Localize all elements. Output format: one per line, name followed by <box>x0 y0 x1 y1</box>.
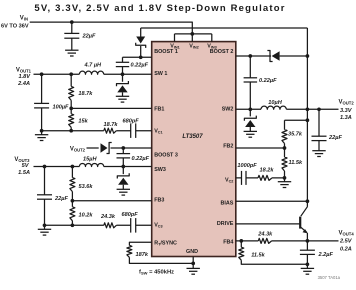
svg-text:1.3A: 1.3A <box>340 115 352 121</box>
svg-text:24.3k: 24.3k <box>100 214 116 220</box>
svg-text:680pF: 680pF <box>122 212 139 218</box>
svg-text:24.3k: 24.3k <box>257 231 273 237</box>
svg-text:BOOST 2: BOOST 2 <box>210 49 234 55</box>
svg-text:1.5A: 1.5A <box>18 170 30 176</box>
svg-text:VOUT2: VOUT2 <box>70 147 86 153</box>
svg-text:0.22µF: 0.22µF <box>259 78 277 84</box>
svg-text:10µH: 10µH <box>268 100 282 106</box>
svg-text:SW3: SW3 <box>154 167 166 173</box>
svg-text:SW 1: SW 1 <box>154 71 167 77</box>
svg-text:VC2: VC2 <box>225 178 233 184</box>
svg-text:VIN1: VIN1 <box>170 44 179 50</box>
svg-text:VC3: VC3 <box>154 223 162 229</box>
svg-text:1.8V: 1.8V <box>18 74 31 80</box>
svg-text:VOUT1: VOUT1 <box>16 68 32 74</box>
svg-text:680pF: 680pF <box>123 118 140 124</box>
svg-text:DRIVE: DRIVE <box>217 221 234 227</box>
svg-text:2.4A: 2.4A <box>17 81 30 87</box>
svg-text:FB2: FB2 <box>223 143 233 149</box>
svg-text:10.2k: 10.2k <box>79 212 94 218</box>
svg-text:11.5k: 11.5k <box>251 253 265 259</box>
svg-text:3507 TA01a: 3507 TA01a <box>318 275 341 280</box>
svg-text:11.5k: 11.5k <box>289 160 303 166</box>
svg-text:35.7k: 35.7k <box>288 131 303 137</box>
svg-text:22µF: 22µF <box>54 196 68 202</box>
svg-text:22µF: 22µF <box>328 135 342 141</box>
svg-text:22µF: 22µF <box>82 34 96 40</box>
svg-text:BOOST 1: BOOST 1 <box>154 49 178 55</box>
svg-text:3.3V: 3.3V <box>340 108 353 114</box>
svg-text:0.2A: 0.2A <box>340 246 352 252</box>
svg-text:18.7k: 18.7k <box>104 122 119 128</box>
svg-text:BOOST 3: BOOST 3 <box>154 152 178 158</box>
svg-text:1000pF: 1000pF <box>237 163 257 169</box>
svg-text:187k: 187k <box>136 252 149 258</box>
svg-text:FB4: FB4 <box>223 239 233 245</box>
svg-text:15µH: 15µH <box>83 156 97 162</box>
svg-text:VOUT4: VOUT4 <box>339 230 355 236</box>
svg-text:FB3: FB3 <box>154 197 164 203</box>
svg-text:0.22µF: 0.22µF <box>132 156 150 162</box>
svg-text:53.6k: 53.6k <box>79 184 94 190</box>
svg-text:FB1: FB1 <box>154 106 164 112</box>
svg-text:BIAS: BIAS <box>221 200 234 206</box>
svg-text:VOUT2: VOUT2 <box>339 100 355 106</box>
svg-text:RT/SYNC: RT/SYNC <box>154 240 177 246</box>
svg-text:VIN: VIN <box>20 16 28 22</box>
svg-text:5V, 3.3V, 2.5V and 1.8V Step-D: 5V, 3.3V, 2.5V and 1.8V Step-Down Regula… <box>34 3 285 14</box>
svg-text:VIN2: VIN2 <box>189 44 198 50</box>
svg-text:0.22µF: 0.22µF <box>131 63 149 69</box>
svg-text:LT3507: LT3507 <box>182 134 203 140</box>
svg-text:6V TO 36V: 6V TO 36V <box>1 23 29 29</box>
svg-text:VC1: VC1 <box>154 129 162 135</box>
svg-text:18.7k: 18.7k <box>78 91 93 97</box>
svg-text:15k: 15k <box>78 119 88 125</box>
svg-text:fSW = 450kHz: fSW = 450kHz <box>139 270 174 276</box>
svg-text:4.7 µH: 4.7 µH <box>84 63 103 69</box>
svg-text:2.5V: 2.5V <box>339 238 353 244</box>
svg-text:SW2: SW2 <box>222 106 234 112</box>
svg-text:GND: GND <box>186 249 198 255</box>
svg-text:2.2µF: 2.2µF <box>318 252 334 258</box>
svg-text:18.2k: 18.2k <box>260 167 275 173</box>
svg-text:VIN3: VIN3 <box>207 44 216 50</box>
svg-text:100µF: 100µF <box>53 104 70 110</box>
